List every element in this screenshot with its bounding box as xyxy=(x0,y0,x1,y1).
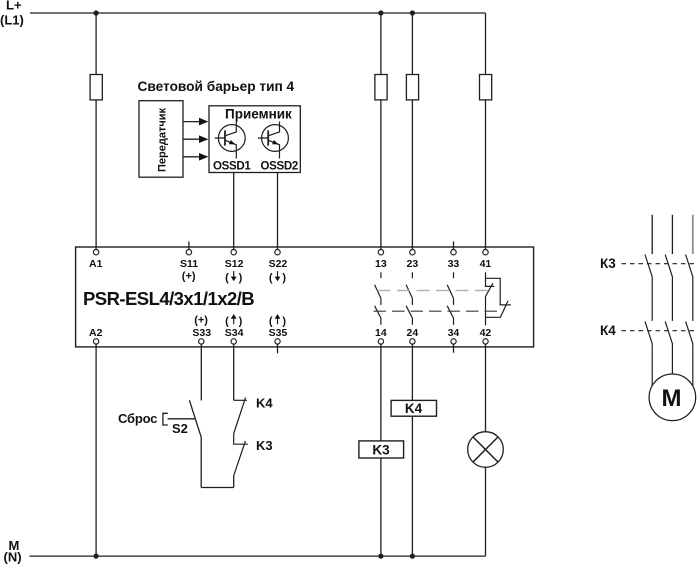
svg-text:K3: K3 xyxy=(372,442,390,457)
svg-text:A1: A1 xyxy=(89,258,103,270)
svg-text:К4: К4 xyxy=(600,323,616,338)
svg-text:S34: S34 xyxy=(225,327,244,339)
wire M bus xyxy=(30,555,486,557)
wire K3 to U xyxy=(233,476,235,488)
phase line 3 (gray) xyxy=(692,215,694,254)
wire L+ bus xyxy=(30,12,486,14)
svg-text:K4: K4 xyxy=(405,401,423,416)
wire 42 down xyxy=(485,344,487,432)
fuse F3 xyxy=(406,75,418,100)
svg-text:42: 42 xyxy=(480,327,492,339)
wire OSSD1 to S12 xyxy=(233,173,235,250)
contactor K4 pole 3 xyxy=(686,321,693,386)
svg-text:S12: S12 xyxy=(225,258,244,270)
contact K4 (NO aux) xyxy=(234,397,247,433)
svg-text:PSR-ESL4/3x1/1x2/B: PSR-ESL4/3x1/1x2/B xyxy=(83,288,254,309)
junction dot 24 on bus xyxy=(410,554,415,559)
junction dot A1 branch xyxy=(94,10,99,15)
terminal 13 xyxy=(378,250,383,255)
svg-text:): ) xyxy=(239,315,243,327)
wire A2 to M bus xyxy=(95,344,97,556)
phase line 2 xyxy=(671,215,673,254)
svg-text:K4: K4 xyxy=(256,396,273,411)
indicator lamp xyxy=(468,432,504,468)
terminal 14 xyxy=(378,339,383,344)
K4 actuator dashed xyxy=(622,330,697,332)
svg-text:S2: S2 xyxy=(172,421,188,436)
svg-text:(: ( xyxy=(225,272,229,284)
junction dot A2 on bus xyxy=(94,554,99,559)
svg-text:23: 23 xyxy=(407,258,419,270)
wire S34 down xyxy=(233,344,235,400)
transmitter box xyxy=(139,101,183,178)
junction dot 13 branch xyxy=(378,10,383,15)
fuse F4 xyxy=(480,75,492,100)
junction dot 23 branch xyxy=(410,10,415,15)
svg-text:(+): (+) xyxy=(194,315,208,327)
contact 23-24 (double NO) xyxy=(406,272,412,325)
phase line 1 xyxy=(651,215,653,254)
wire 13 drop xyxy=(380,13,382,249)
svg-text:A2: A2 xyxy=(89,327,103,339)
terminal 33 xyxy=(453,242,455,250)
svg-text:OSSD1: OSSD1 xyxy=(213,160,251,172)
svg-text:К3: К3 xyxy=(600,256,616,271)
terminal 24 xyxy=(410,339,415,344)
coil K3 xyxy=(359,441,404,458)
net L+ (L1) xyxy=(0,0,24,28)
svg-text:(: ( xyxy=(269,272,273,284)
svg-text:(: ( xyxy=(225,315,229,327)
terminal 34 xyxy=(453,344,455,353)
net M (N) xyxy=(4,538,22,565)
contactor K4 pole 2 xyxy=(665,321,672,374)
contactor K3 pole 1 xyxy=(645,255,652,321)
relay box PSR-ESL4 xyxy=(76,247,534,347)
svg-text:Передатчик: Передатчик xyxy=(157,108,169,172)
terminal S11 xyxy=(188,242,190,250)
receiver box xyxy=(209,106,300,173)
svg-text:(+): (+) xyxy=(182,271,196,283)
K3 actuator dashed xyxy=(622,263,697,265)
phototransistor OSSD2 xyxy=(258,122,289,159)
wire OSSD2 to S22 xyxy=(277,173,279,250)
contact 13-14 (double NO) xyxy=(375,272,381,325)
phototransistor OSSD1 xyxy=(215,122,246,159)
wire S2 bottom xyxy=(200,437,202,487)
fuse F2 xyxy=(375,75,387,100)
svg-text:14: 14 xyxy=(375,327,387,339)
svg-text:OSSD2: OSSD2 xyxy=(261,160,299,172)
svg-text:S35: S35 xyxy=(269,327,288,339)
svg-text:(L1): (L1) xyxy=(0,13,24,28)
svg-text:(N): (N) xyxy=(4,550,22,565)
contact 41-42 (double NC) xyxy=(486,272,511,325)
fuse F1 xyxy=(90,75,102,100)
wire 24 down xyxy=(411,344,413,400)
beam arrow 2 xyxy=(183,138,200,140)
svg-text:24: 24 xyxy=(407,327,419,339)
mech link lower (dashed) xyxy=(374,310,499,312)
wire coil K4 to bus xyxy=(411,416,413,556)
wire S33 down xyxy=(200,344,202,400)
wire 14 down xyxy=(380,344,382,441)
svg-text:Приемник: Приемник xyxy=(225,107,292,122)
terminal 23 xyxy=(410,250,415,255)
svg-text:Сброс: Сброс xyxy=(118,411,157,426)
wire coil K3 to bus xyxy=(380,458,382,556)
svg-text:L+: L+ xyxy=(6,0,22,13)
wire 23 drop xyxy=(411,13,413,249)
terminal 42 xyxy=(483,339,488,344)
svg-text:S22: S22 xyxy=(269,258,288,270)
coil K4 xyxy=(391,400,436,416)
contactor K3 pole 2 xyxy=(665,255,672,321)
terminal S22 xyxy=(275,250,280,255)
svg-text:13: 13 xyxy=(375,258,387,270)
terminal A1 xyxy=(93,250,98,255)
contactor K3 pole 3 xyxy=(686,255,693,321)
terminal A2 xyxy=(93,339,98,344)
svg-text:(: ( xyxy=(269,315,273,327)
svg-text:): ) xyxy=(282,272,286,284)
svg-text:S11: S11 xyxy=(180,258,198,270)
contact 33-34 (double NO) xyxy=(447,272,453,325)
contactor K4 pole 1 xyxy=(645,321,652,385)
reset button S2 xyxy=(163,400,201,437)
svg-text:33: 33 xyxy=(448,258,460,270)
terminal S33 xyxy=(199,339,204,344)
svg-text:K3: K3 xyxy=(256,438,273,453)
beam arrow 3 xyxy=(183,156,200,158)
terminal S12 xyxy=(231,250,236,255)
terminal S35 xyxy=(277,344,279,353)
junction dot 14 on bus xyxy=(378,554,383,559)
svg-text:34: 34 xyxy=(448,327,460,339)
wire U bottom xyxy=(201,487,234,489)
wire 41 drop xyxy=(485,13,487,249)
svg-text:41: 41 xyxy=(480,258,492,270)
terminal S34 xyxy=(231,339,236,344)
wire lamp to bus xyxy=(485,467,487,556)
svg-text:Световой барьер тип 4: Световой барьер тип 4 xyxy=(138,79,295,94)
svg-text:): ) xyxy=(282,315,286,327)
svg-text:S33: S33 xyxy=(192,327,211,339)
svg-text:M: M xyxy=(662,385,682,412)
beam arrow 1 xyxy=(183,121,200,123)
contact K3 (NO aux) xyxy=(234,434,248,476)
terminal 41 xyxy=(483,250,488,255)
motor M3 xyxy=(649,374,696,421)
wire A1 drop xyxy=(95,13,97,249)
svg-text:): ) xyxy=(239,272,243,284)
mech link upper (dashed) xyxy=(378,290,489,292)
